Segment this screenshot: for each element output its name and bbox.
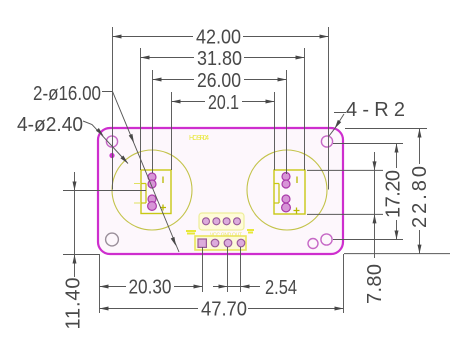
- svg-text:17.20: 17.20: [382, 170, 404, 218]
- svg-text:47.70: 47.70: [201, 299, 247, 321]
- svg-text:HC-SR04: HC-SR04: [189, 135, 209, 142]
- svg-text:20.1: 20.1: [208, 92, 239, 114]
- svg-text:20.30: 20.30: [129, 277, 172, 299]
- svg-text:11.40: 11.40: [63, 278, 85, 330]
- svg-text:2.54: 2.54: [265, 277, 297, 299]
- svg-text:2-ø16.00: 2-ø16.00: [33, 83, 101, 105]
- svg-text:26.00: 26.00: [197, 70, 241, 92]
- svg-text:4-R2: 4-R2: [346, 99, 405, 121]
- svg-text:4-ø2.40: 4-ø2.40: [17, 114, 83, 136]
- svg-text:31.80: 31.80: [197, 48, 242, 70]
- svg-text:42.00: 42.00: [196, 27, 241, 49]
- svg-text:22.80: 22.80: [409, 166, 431, 228]
- svg-text:7.80: 7.80: [364, 264, 386, 304]
